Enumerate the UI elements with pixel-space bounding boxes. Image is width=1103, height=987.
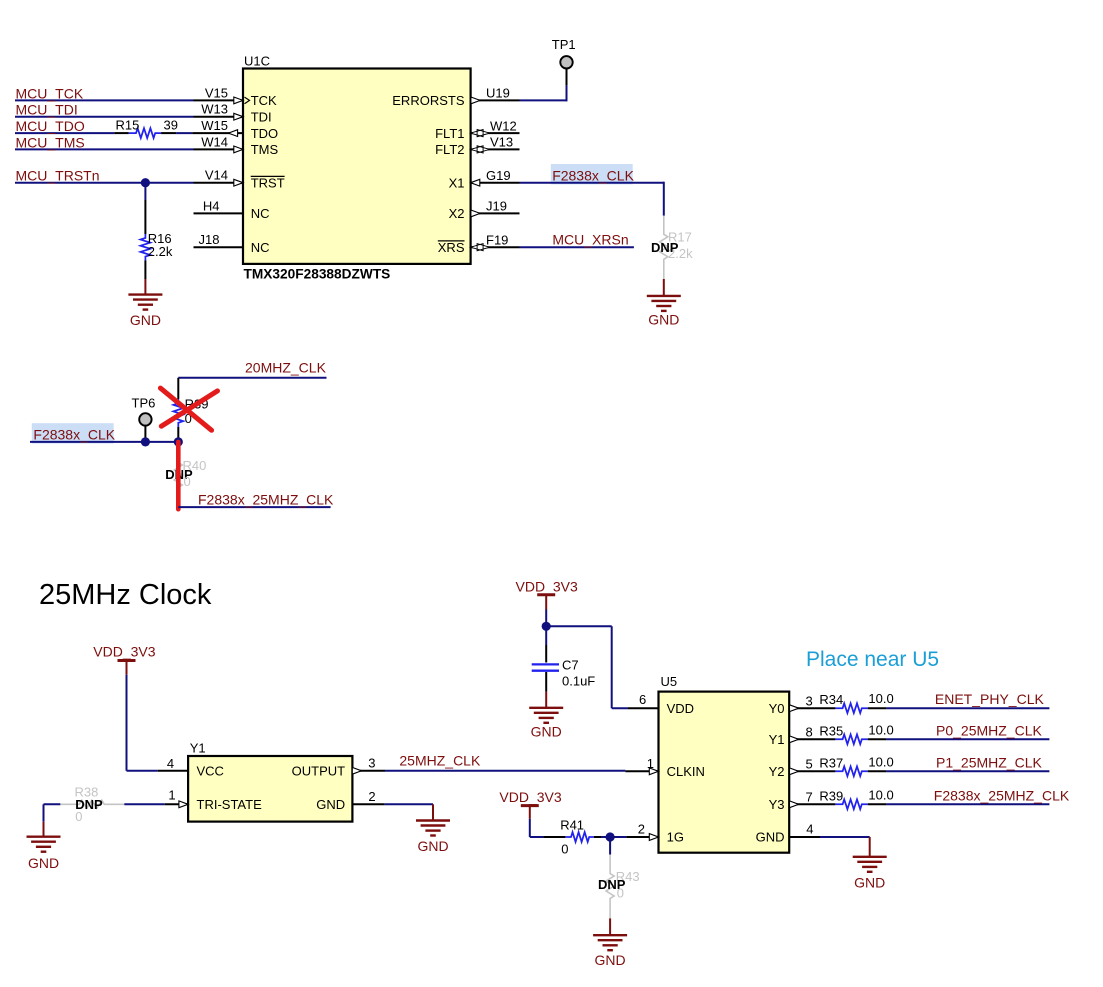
svg-text:VCC: VCC: [197, 763, 224, 778]
pin arrow input TRI-STATE: [179, 801, 188, 808]
svg-text:GND: GND: [316, 797, 345, 812]
pin number 8 (U5): [806, 725, 813, 740]
svg-text:1: 1: [647, 756, 654, 771]
net label MCU_TDO: [16, 118, 85, 134]
wire GND to R38: [44, 803, 61, 805]
net highlight F2838x_CLK (X1): [551, 164, 633, 184]
svg-text:2: 2: [638, 822, 645, 837]
junction at R39/R40 column: [174, 437, 183, 446]
net label MCU_TRSTn: [16, 168, 100, 184]
svg-text:X1: X1: [449, 175, 465, 190]
section title 25MHz Clock: [39, 579, 212, 611]
svg-text:GND: GND: [417, 838, 448, 854]
svg-text:P0_25MHZ_CLK: P0_25MHZ_CLK: [936, 722, 1042, 738]
pin name NC (J18): [251, 240, 270, 255]
svg-text:MCU_TDO: MCU_TDO: [16, 118, 85, 134]
power symbol VDD_3V3 (C7): [537, 595, 555, 610]
svg-text:ERRORSTS: ERRORSTS: [392, 93, 465, 108]
svg-text:0: 0: [75, 809, 82, 824]
wire net MCU_TDO: [15, 132, 114, 134]
pin number 3 (Y1): [368, 756, 375, 771]
pin 3 stub (Y1 OUTPUT): [352, 770, 385, 772]
red X markup over R39: [160, 388, 217, 430]
pin W15 stub (TDO): [192, 132, 243, 134]
svg-text:TCK: TCK: [251, 93, 277, 108]
power label VDD_3V3 (R41): [499, 789, 561, 805]
label DNP (R17): [651, 240, 679, 255]
pin name GND (U5): [756, 830, 785, 845]
pin name CLKIN (U5): [667, 764, 705, 779]
svg-text:R15: R15: [116, 118, 140, 133]
svg-text:G19: G19: [486, 168, 511, 183]
ground symbol below R17: [647, 296, 681, 311]
resistor R15 right lead: [161, 132, 176, 134]
svg-text:W12: W12: [490, 118, 517, 133]
svg-text:Y3: Y3: [769, 797, 785, 812]
ground label GND (right of Y1): [417, 838, 448, 854]
refdes R17 (DNP): [668, 230, 692, 245]
resistor R41 left lead: [543, 836, 565, 838]
pin name XRS (active low): [438, 240, 465, 255]
pin number F19: [486, 232, 508, 247]
svg-text:25MHz Clock: 25MHz Clock: [39, 579, 212, 611]
pin arrow input X1: [471, 179, 480, 186]
testpoint TP6 stub: [144, 426, 146, 442]
svg-text:10.0: 10.0: [868, 722, 893, 737]
svg-text:0: 0: [561, 842, 568, 857]
svg-text:VDD: VDD: [667, 701, 694, 716]
svg-text:Place near U5: Place near U5: [806, 648, 939, 671]
svg-text:J19: J19: [486, 199, 507, 214]
svg-text:3: 3: [806, 694, 813, 709]
value 0.1uF (C7): [562, 674, 595, 689]
pin bidir symbol XRS: [471, 244, 490, 251]
pin W12 stub (FLT1): [471, 132, 520, 134]
svg-text:W14: W14: [201, 134, 228, 149]
pin arrow output OUTPUT: [352, 767, 361, 774]
pin arrow output Y1: [790, 736, 799, 743]
pin 6 stub (U5 VDD): [628, 707, 659, 709]
wire VDD_3V3 down to junction: [545, 610, 547, 627]
resistor R39 zigzag: [835, 799, 867, 809]
pin W13 stub (TDI): [194, 116, 244, 118]
svg-text:V14: V14: [205, 168, 228, 183]
pin name TMS: [251, 142, 279, 157]
wire net F2838x_CLK (left): [30, 441, 178, 443]
value 10.0 (R37): [868, 754, 893, 769]
resistor R16 bottom lead: [144, 261, 146, 280]
pin J19 stub (X2): [471, 212, 520, 214]
svg-text:ENET_PHY_CLK: ENET_PHY_CLK: [935, 691, 1045, 707]
svg-text:F2838x_25MHZ_CLK: F2838x_25MHZ_CLK: [934, 787, 1070, 803]
svg-text:VDD_3V3: VDD_3V3: [516, 578, 578, 594]
svg-text:NC: NC: [251, 206, 270, 221]
pin number H4: [203, 198, 220, 213]
pin number J18: [199, 232, 220, 247]
svg-text:J18: J18: [199, 232, 220, 247]
svg-text:R35: R35: [819, 723, 843, 738]
svg-text:TRST: TRST: [251, 175, 285, 190]
svg-text:TP1: TP1: [552, 37, 576, 52]
resistor R43 (DNP) body: [606, 855, 614, 919]
pin number V15: [205, 85, 228, 100]
value 0 (R40): [184, 474, 191, 489]
svg-text:TMX320F28388DZWTS: TMX320F28388DZWTS: [244, 266, 391, 281]
net label MCU_TDI: [16, 102, 78, 118]
pin arrow output Y3: [790, 801, 799, 808]
svg-text:TMS: TMS: [251, 142, 279, 157]
pin J18 stub (NC): [194, 246, 244, 248]
pin V15 stub (TCK): [194, 99, 244, 101]
ground symbol left of Y1: [27, 837, 61, 852]
ground symbol below U5 GND: [853, 857, 887, 872]
svg-text:FLT2: FLT2: [435, 142, 464, 157]
resistor R15 zigzag: [129, 128, 161, 138]
refdes U5: [661, 674, 678, 689]
annotation Place near U5: [806, 648, 939, 671]
pin name TRST (active low): [251, 175, 285, 190]
svg-text:OUTPUT: OUTPUT: [292, 763, 346, 778]
svg-text:Y0: Y0: [769, 701, 785, 716]
svg-text:NC: NC: [251, 240, 270, 255]
refdes R15: [116, 118, 140, 133]
wire ERRORSTS to TP1: [520, 69, 567, 101]
pin number 6 (U5): [639, 692, 646, 707]
wire R38 to GND (left): [43, 804, 45, 836]
value 39 (R15): [164, 118, 178, 133]
wire R15 to TDO pin: [176, 132, 192, 134]
resistor R39 zigzag: [173, 399, 183, 427]
pin arrow input TCK: [234, 97, 250, 104]
svg-text:C7: C7: [562, 657, 579, 672]
svg-text:GND: GND: [756, 830, 785, 845]
pin 5 stub (U5 Y2): [789, 770, 835, 772]
refdes R41: [560, 817, 584, 832]
pin name X2: [449, 206, 465, 221]
wire C7 to GND: [545, 672, 547, 708]
svg-text:Y1: Y1: [769, 732, 785, 747]
wire R43 to GND: [609, 918, 611, 935]
pin number 5 (U5): [806, 757, 813, 772]
pin bidir symbol FLT2: [471, 146, 490, 153]
pin name TDI: [251, 109, 272, 124]
pin number 1 (U5): [647, 756, 654, 771]
svg-text:0.1uF: 0.1uF: [562, 674, 595, 689]
pin number 4 (Y1): [167, 756, 174, 771]
pin 4 stub (Y1 VCC): [158, 770, 188, 772]
refdes R39: [185, 397, 209, 412]
net label 20MHZ_CLK: [245, 360, 327, 376]
ground symbol below R43: [593, 935, 627, 950]
pin name Y0 (U5): [769, 701, 785, 716]
pin arrow input TRST: [234, 179, 243, 186]
resistor R39 top lead: [177, 378, 179, 399]
svg-text:GND: GND: [648, 312, 679, 328]
ground label GND (R16): [130, 312, 161, 328]
label TP1: [552, 37, 576, 52]
pin arrow input CLKIN: [649, 768, 658, 775]
svg-text:MCU_XRSn: MCU_XRSn: [552, 231, 628, 247]
pin 4 stub (U5 GND): [789, 836, 820, 838]
svg-text:4: 4: [806, 822, 813, 837]
svg-text:20MHZ_CLK: 20MHZ_CLK: [245, 360, 327, 376]
pin number 1 (Y1): [168, 788, 175, 803]
pin name Y2 (U5): [769, 764, 785, 779]
wire R17 to GND: [663, 279, 665, 296]
pin arrow output ERRORSTS: [471, 97, 480, 104]
refdes R39: [819, 788, 843, 803]
svg-text:TP6: TP6: [132, 396, 156, 411]
pin number W13: [201, 102, 228, 117]
pin arrow output TDO: [228, 130, 237, 137]
wire net MCU_TMS: [15, 148, 194, 150]
wire Y1 GND to ground: [385, 804, 433, 820]
resistor R41 right lead: [594, 836, 610, 838]
refdes U1C: [244, 54, 270, 69]
pin arrow input TMS: [234, 146, 243, 153]
pin bidir symbol FLT1: [471, 130, 490, 137]
net label MCU_TMS: [16, 134, 85, 150]
pin H4 stub (NC): [194, 212, 244, 214]
net label F2838x_CLK (left): [33, 427, 115, 443]
pin name X1: [449, 175, 465, 190]
wire VDD_3V3 to Y1 VCC: [127, 675, 158, 771]
svg-text:10.0: 10.0: [868, 691, 893, 706]
net label MCU_TCK: [16, 85, 84, 101]
net label F2838x_25MHZ_CLK (mux): [198, 491, 334, 507]
svg-text:P1_25MHZ_CLK: P1_25MHZ_CLK: [936, 754, 1042, 770]
svg-text:5: 5: [806, 757, 813, 772]
power label VDD_3V3 (Y1): [93, 644, 155, 660]
svg-text:F2838x_CLK: F2838x_CLK: [33, 427, 115, 443]
pin name ERRORSTS: [392, 93, 465, 108]
svg-text:VDD_3V3: VDD_3V3: [499, 789, 561, 805]
wire net F2838x_CLK (X1): [520, 182, 664, 216]
svg-text:U1C: U1C: [244, 54, 270, 69]
refdes R16: [148, 231, 172, 246]
pin 2 stub (U5 1G): [626, 836, 658, 838]
svg-text:F2838x_CLK: F2838x_CLK: [552, 167, 634, 183]
svg-text:H4: H4: [203, 198, 220, 213]
svg-text:10.0: 10.0: [868, 787, 893, 802]
wire net MCU_TRSTn: [15, 182, 194, 184]
net label P1_25MHZ_CLK: [936, 754, 1042, 770]
refdes R43 (DNP): [616, 869, 640, 884]
pin number U19: [486, 86, 510, 101]
svg-text:4: 4: [167, 756, 174, 771]
label DNP (R38): [75, 797, 103, 812]
ground label GND (R17): [648, 312, 679, 328]
svg-text:MCU_TDI: MCU_TDI: [16, 102, 78, 118]
net label F2838x_CLK (X1): [552, 167, 634, 183]
refdes R37: [819, 755, 843, 770]
label DNP (R43): [598, 877, 626, 892]
svg-text:TDI: TDI: [251, 109, 272, 124]
svg-text:1G: 1G: [667, 830, 684, 845]
junction at C7/VDD: [542, 622, 551, 631]
net label F2838x_25MHZ_CLK: [934, 787, 1070, 803]
wire net MCU_TCK: [15, 99, 194, 101]
svg-text:8: 8: [806, 725, 813, 740]
pin 2 stub (Y1 GND): [352, 803, 384, 805]
svg-text:VDD_3V3: VDD_3V3: [93, 644, 155, 660]
pin name Y3 (U5): [769, 797, 785, 812]
wire R38 to Y1 pin1: [124, 803, 164, 805]
pin G19 stub (X1): [471, 182, 520, 184]
pin name TCK: [251, 93, 277, 108]
resistor R37 zigzag: [835, 766, 867, 776]
svg-text:V15: V15: [205, 85, 228, 100]
IC U5 body (clock buffer): [659, 692, 790, 853]
refdes C7: [562, 657, 579, 672]
svg-text:MCU_TCK: MCU_TCK: [16, 85, 84, 101]
resistor R41 zigzag: [565, 832, 593, 842]
pin number W15: [201, 118, 228, 133]
refdes R35: [819, 723, 843, 738]
junction at TP6: [141, 437, 150, 446]
ground label GND (left of Y1): [28, 855, 59, 871]
pin name TRI-STATE (Y1): [197, 797, 263, 812]
svg-text:X2: X2: [449, 206, 465, 221]
svg-text:W13: W13: [201, 102, 228, 117]
svg-text:1: 1: [168, 788, 175, 803]
refdes R34: [819, 692, 843, 707]
value 2.2k (R16): [148, 244, 173, 259]
pin name VDD (U5): [667, 701, 694, 716]
svg-text:6: 6: [639, 692, 646, 707]
wire junction to U5 VDD: [546, 626, 628, 708]
wire net P1_25MHZ_CLK: [886, 770, 1049, 772]
pin name OUTPUT (Y1): [292, 763, 346, 778]
refdes R38 (DNP): [75, 785, 99, 800]
value 2.2k (R17): [668, 246, 693, 261]
pin arrow output Y2: [790, 768, 799, 775]
resistor R35 zigzag: [835, 734, 867, 744]
pin number V13: [490, 135, 513, 150]
part value TMX320F28388DZWTS: [244, 266, 391, 281]
svg-text:GND: GND: [28, 855, 59, 871]
resistor R15 left lead: [114, 132, 129, 134]
svg-text:U5: U5: [661, 674, 678, 689]
pin F19 stub (XRS): [471, 246, 520, 248]
wire net P0_25MHZ_CLK: [886, 738, 1049, 740]
svg-text:Y2: Y2: [769, 764, 785, 779]
svg-text:F19: F19: [486, 232, 508, 247]
svg-text:10.0: 10.0: [868, 754, 893, 769]
pin number W14: [201, 134, 228, 149]
refdes R40 (DNP): [183, 458, 207, 473]
resistor R38 (DNP) body: [60, 800, 124, 808]
value 0 (R38): [75, 809, 82, 824]
svg-text:GND: GND: [595, 952, 626, 968]
pin 7 stub (U5 Y3): [789, 803, 835, 805]
svg-text:R37: R37: [819, 755, 843, 770]
power symbol VDD_3V3 (R41): [521, 806, 539, 819]
svg-text:MCU_TRSTn: MCU_TRSTn: [16, 168, 100, 184]
wire junction down to R43: [609, 837, 611, 855]
pin number 7 (U5): [806, 790, 813, 805]
testpoint TP6: [139, 413, 151, 425]
pin 8 stub (U5 Y1): [789, 738, 835, 740]
pin number G19: [486, 168, 511, 183]
wire net MCU_XRSn: [520, 246, 634, 248]
value 10.0 (R39): [868, 787, 893, 802]
svg-text:XRS: XRS: [438, 240, 465, 255]
pin 1 stub (Y1 TRI-STATE): [165, 803, 188, 805]
pin name Y1 (U5): [769, 732, 785, 747]
svg-text:MCU_TMS: MCU_TMS: [16, 134, 85, 150]
svg-text:GND: GND: [854, 875, 885, 891]
value 0 (R41): [561, 842, 568, 857]
wire R41 junction to U5 1G: [610, 836, 626, 838]
pin name NC (H4): [251, 206, 270, 221]
svg-text:GND: GND: [531, 723, 562, 739]
resistor R35 right lead: [868, 738, 887, 740]
power symbol VDD_3V3 (Y1): [118, 661, 136, 675]
pin number J19: [486, 199, 507, 214]
svg-text:0: 0: [617, 886, 624, 901]
pin number 4 (U5): [806, 822, 813, 837]
svg-text:25MHZ_CLK: 25MHZ_CLK: [399, 752, 481, 768]
capacitor C7 plates: [532, 664, 559, 670]
resistor R37 right lead: [868, 770, 887, 772]
pin name VCC (Y1): [197, 763, 224, 778]
wire VDD_3V3 to R41: [530, 819, 544, 837]
pin arrow output Y0: [790, 705, 799, 712]
svg-text:U19: U19: [486, 86, 510, 101]
junction at R41/1G: [606, 832, 615, 841]
resistor R34 right lead: [868, 707, 887, 709]
pin V13 stub (FLT2): [471, 148, 520, 150]
oscillator Y1 body: [188, 756, 352, 822]
svg-text:FLT1: FLT1: [435, 126, 464, 141]
testpoint TP1: [560, 56, 572, 68]
pin number 2 (U5): [638, 822, 645, 837]
svg-text:GND: GND: [130, 312, 161, 328]
svg-text:TRI-STATE: TRI-STATE: [197, 797, 263, 812]
wire net 25MHZ_CLK: [385, 770, 625, 772]
value 0 (R39): [185, 411, 192, 426]
wire R16 to GND: [144, 279, 146, 295]
label DNP (R40): [165, 467, 193, 482]
svg-text:TDO: TDO: [251, 126, 278, 141]
red jumper markup over R40: [176, 442, 181, 509]
resistor R16 zigzag: [141, 234, 151, 261]
power label VDD_3V3 (C7): [516, 578, 578, 594]
svg-text:39: 39: [164, 118, 178, 133]
pin W14 stub (TMS): [194, 148, 244, 150]
pin U19 stub (ERRORSTS): [471, 99, 520, 101]
junction on MCU_TRSTn: [141, 178, 150, 187]
svg-text:R41: R41: [560, 817, 584, 832]
resistor R17 (DNP) body: [660, 216, 668, 279]
pin name FLT1: [435, 126, 464, 141]
net label ENET_PHY_CLK: [935, 691, 1045, 707]
refdes Y1: [190, 740, 206, 755]
pin arrow output X2: [471, 210, 480, 217]
svg-text:R39: R39: [819, 788, 843, 803]
value 0 (R43): [617, 886, 624, 901]
pin arrow input TDI: [234, 113, 243, 120]
wire U5 GND to ground: [820, 837, 870, 857]
ground symbol below R16: [128, 295, 162, 310]
resistor R39 right lead: [868, 803, 887, 805]
svg-text:3: 3: [368, 756, 375, 771]
svg-text:2: 2: [368, 789, 375, 804]
pin name 1G (U5): [667, 830, 684, 845]
svg-text:0: 0: [184, 474, 191, 489]
net label P0_25MHZ_CLK: [936, 722, 1042, 738]
